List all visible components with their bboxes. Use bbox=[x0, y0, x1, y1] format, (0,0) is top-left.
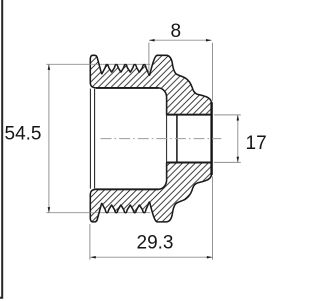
extension line left of dim 29.3 bbox=[89, 224, 91, 260]
extension line left of dim 8 bbox=[148, 43, 150, 74]
arrow dim 54.5 top bbox=[48, 64, 51, 70]
pulley top half section bbox=[90, 55, 211, 114]
dimension line 17 bbox=[237, 115, 239, 162]
arrow dim 29.3 left bbox=[90, 256, 96, 259]
bore horizontal walls (heavier) bbox=[96, 88, 159, 189]
extension line right edge (shared dim 8 / dim 29.3) bbox=[212, 43, 214, 260]
svg-text:17: 17 bbox=[246, 133, 267, 154]
pulley bottom half section bbox=[90, 163, 211, 222]
dimension line 54.5 bbox=[48, 64, 50, 212]
arrow dim 17 top bbox=[237, 115, 240, 121]
panel border line bbox=[0, 0, 3, 298]
arrow dim 8 right bbox=[206, 39, 212, 42]
arrow dim 17 bottom bbox=[237, 157, 240, 163]
bore left inner edge lines bbox=[90, 89, 94, 189]
extension lines dim 17 bbox=[214, 115, 241, 162]
dimension line 8 bbox=[149, 39, 212, 41]
dimension 54.5 extension lines (under part) bbox=[46, 64, 150, 212]
svg-text:29.3: 29.3 bbox=[137, 232, 174, 253]
part right face (thick) bbox=[210, 102, 212, 175]
arrow dim 54.5 bottom bbox=[48, 207, 51, 213]
centerline bbox=[101, 138, 222, 140]
dimension line 29.3 bbox=[90, 256, 212, 258]
svg-text:8: 8 bbox=[171, 21, 182, 42]
extension line over flange bbox=[89, 64, 98, 212]
arrow dim 8 left bbox=[149, 39, 155, 42]
arrow dim 29.3 right bbox=[207, 256, 213, 259]
bore right wall line bbox=[166, 97, 168, 180]
hub horizontal walls (heavier) bbox=[167, 115, 211, 163]
hub bore left wall bbox=[176, 115, 178, 161]
svg-text:54.5: 54.5 bbox=[5, 124, 42, 145]
